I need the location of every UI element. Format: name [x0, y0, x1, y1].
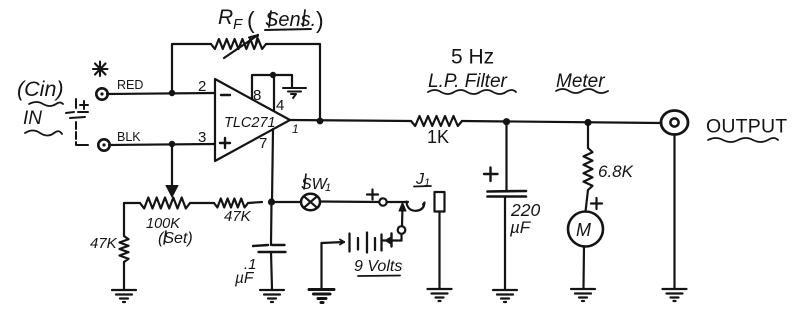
svg-text:BLK: BLK	[117, 130, 141, 144]
battery B1 9V	[322, 203, 407, 277]
ground under .1uF	[260, 290, 284, 302]
svg-text:47K: 47K	[90, 235, 118, 252]
svg-text:1: 1	[292, 122, 299, 136]
svg-text:(Cin): (Cin)	[17, 77, 64, 101]
svg-text:IN: IN	[23, 108, 42, 129]
svg-text:7: 7	[259, 135, 267, 152]
node RED junction	[169, 90, 175, 96]
wire pin7 down	[272, 129, 273, 202]
resistor R 1K	[411, 116, 462, 147]
ground under OUTPUT	[663, 289, 687, 301]
ground battery	[309, 290, 334, 303]
wire plug to J1	[387, 201, 408, 203]
ground at pin4	[283, 75, 306, 98]
svg-text:8: 8	[253, 87, 261, 104]
svg-text:Sens.: Sens.	[265, 9, 316, 31]
wire battery to ground	[320, 243, 322, 288]
svg-text:TLC271: TLC271	[224, 115, 276, 131]
svg-text:47K: 47K	[224, 208, 252, 225]
svg-text:2: 2	[198, 78, 206, 95]
svg-text:6.8K: 6.8K	[598, 162, 634, 181]
svg-text:1: 1	[325, 182, 331, 194]
ground under meter	[571, 289, 595, 301]
svg-text:(: (	[247, 7, 255, 33]
svg-text:µF: µF	[235, 270, 255, 287]
label Meter	[556, 71, 608, 93]
capacitor C .1uF	[235, 202, 286, 289]
wire wiper from BLK node	[166, 144, 178, 197]
connector circle on wire	[379, 198, 386, 205]
terminal OUTPUT	[661, 111, 688, 289]
node filter junction	[503, 118, 510, 125]
meter M1	[568, 198, 603, 288]
svg-text:F: F	[233, 16, 243, 33]
jack J1	[407, 171, 445, 288]
svg-text:): )	[316, 7, 324, 33]
svg-text:RED: RED	[117, 78, 143, 92]
node meter junction	[584, 119, 591, 126]
svg-text:1: 1	[424, 177, 430, 189]
svg-text:OUTPUT: OUTPUT	[706, 116, 787, 138]
wire junction to SW1	[272, 201, 301, 203]
ground under 47K	[112, 290, 136, 302]
resistor R 47K horizontal	[214, 199, 262, 226]
terminal BLK	[98, 130, 141, 151]
label plus battery plug	[367, 190, 378, 200]
wire 1K to output	[462, 121, 662, 123]
svg-text:5 Hz: 5 Hz	[451, 46, 494, 69]
switch SW1	[301, 174, 331, 210]
svg-text:R: R	[218, 6, 233, 29]
node pin7 junction	[268, 198, 275, 205]
op-amp U1 TLC271	[198, 78, 299, 161]
resistor RF (feedback potentiometer)	[172, 35, 320, 121]
svg-text:220: 220	[510, 200, 540, 220]
node output junction	[317, 118, 324, 125]
resistor R 47K vertical	[90, 203, 129, 289]
wire op-amp output	[290, 120, 411, 121]
svg-text:L.P. Filter: L.P. Filter	[428, 71, 508, 92]
wire SW1 to plug	[320, 200, 379, 203]
svg-text:9 Volts: 9 Volts	[354, 258, 402, 275]
resistor R 100K (Set)	[124, 198, 214, 248]
wire RED to op-amp	[107, 93, 215, 94]
wire BLK to op-amp	[109, 144, 215, 145]
label 5Hz LP Filter	[428, 46, 516, 95]
capacitor Cin dashed	[66, 99, 88, 145]
svg-text:1K: 1K	[427, 127, 449, 147]
svg-text:M: M	[576, 220, 591, 240]
ground under 220uF	[493, 290, 517, 302]
node BLK junction	[169, 141, 175, 147]
ground under J1	[428, 289, 452, 301]
resistor R 6.8K	[584, 123, 634, 212]
node pin4 junction	[270, 72, 276, 78]
wire pin8 pin4 tie	[252, 75, 292, 111]
svg-text:(Set): (Set)	[158, 230, 193, 247]
asterisk	[93, 62, 108, 77]
label RF (Sens.)	[218, 6, 324, 33]
label IN	[23, 108, 62, 136]
svg-text:µF: µF	[509, 218, 532, 237]
capacitor C 220uF	[484, 122, 540, 289]
svg-text:3: 3	[198, 129, 206, 146]
label Cin	[17, 77, 64, 106]
terminal RED	[96, 78, 143, 100]
label OUTPUT	[706, 116, 787, 143]
svg-text:4: 4	[276, 97, 284, 114]
